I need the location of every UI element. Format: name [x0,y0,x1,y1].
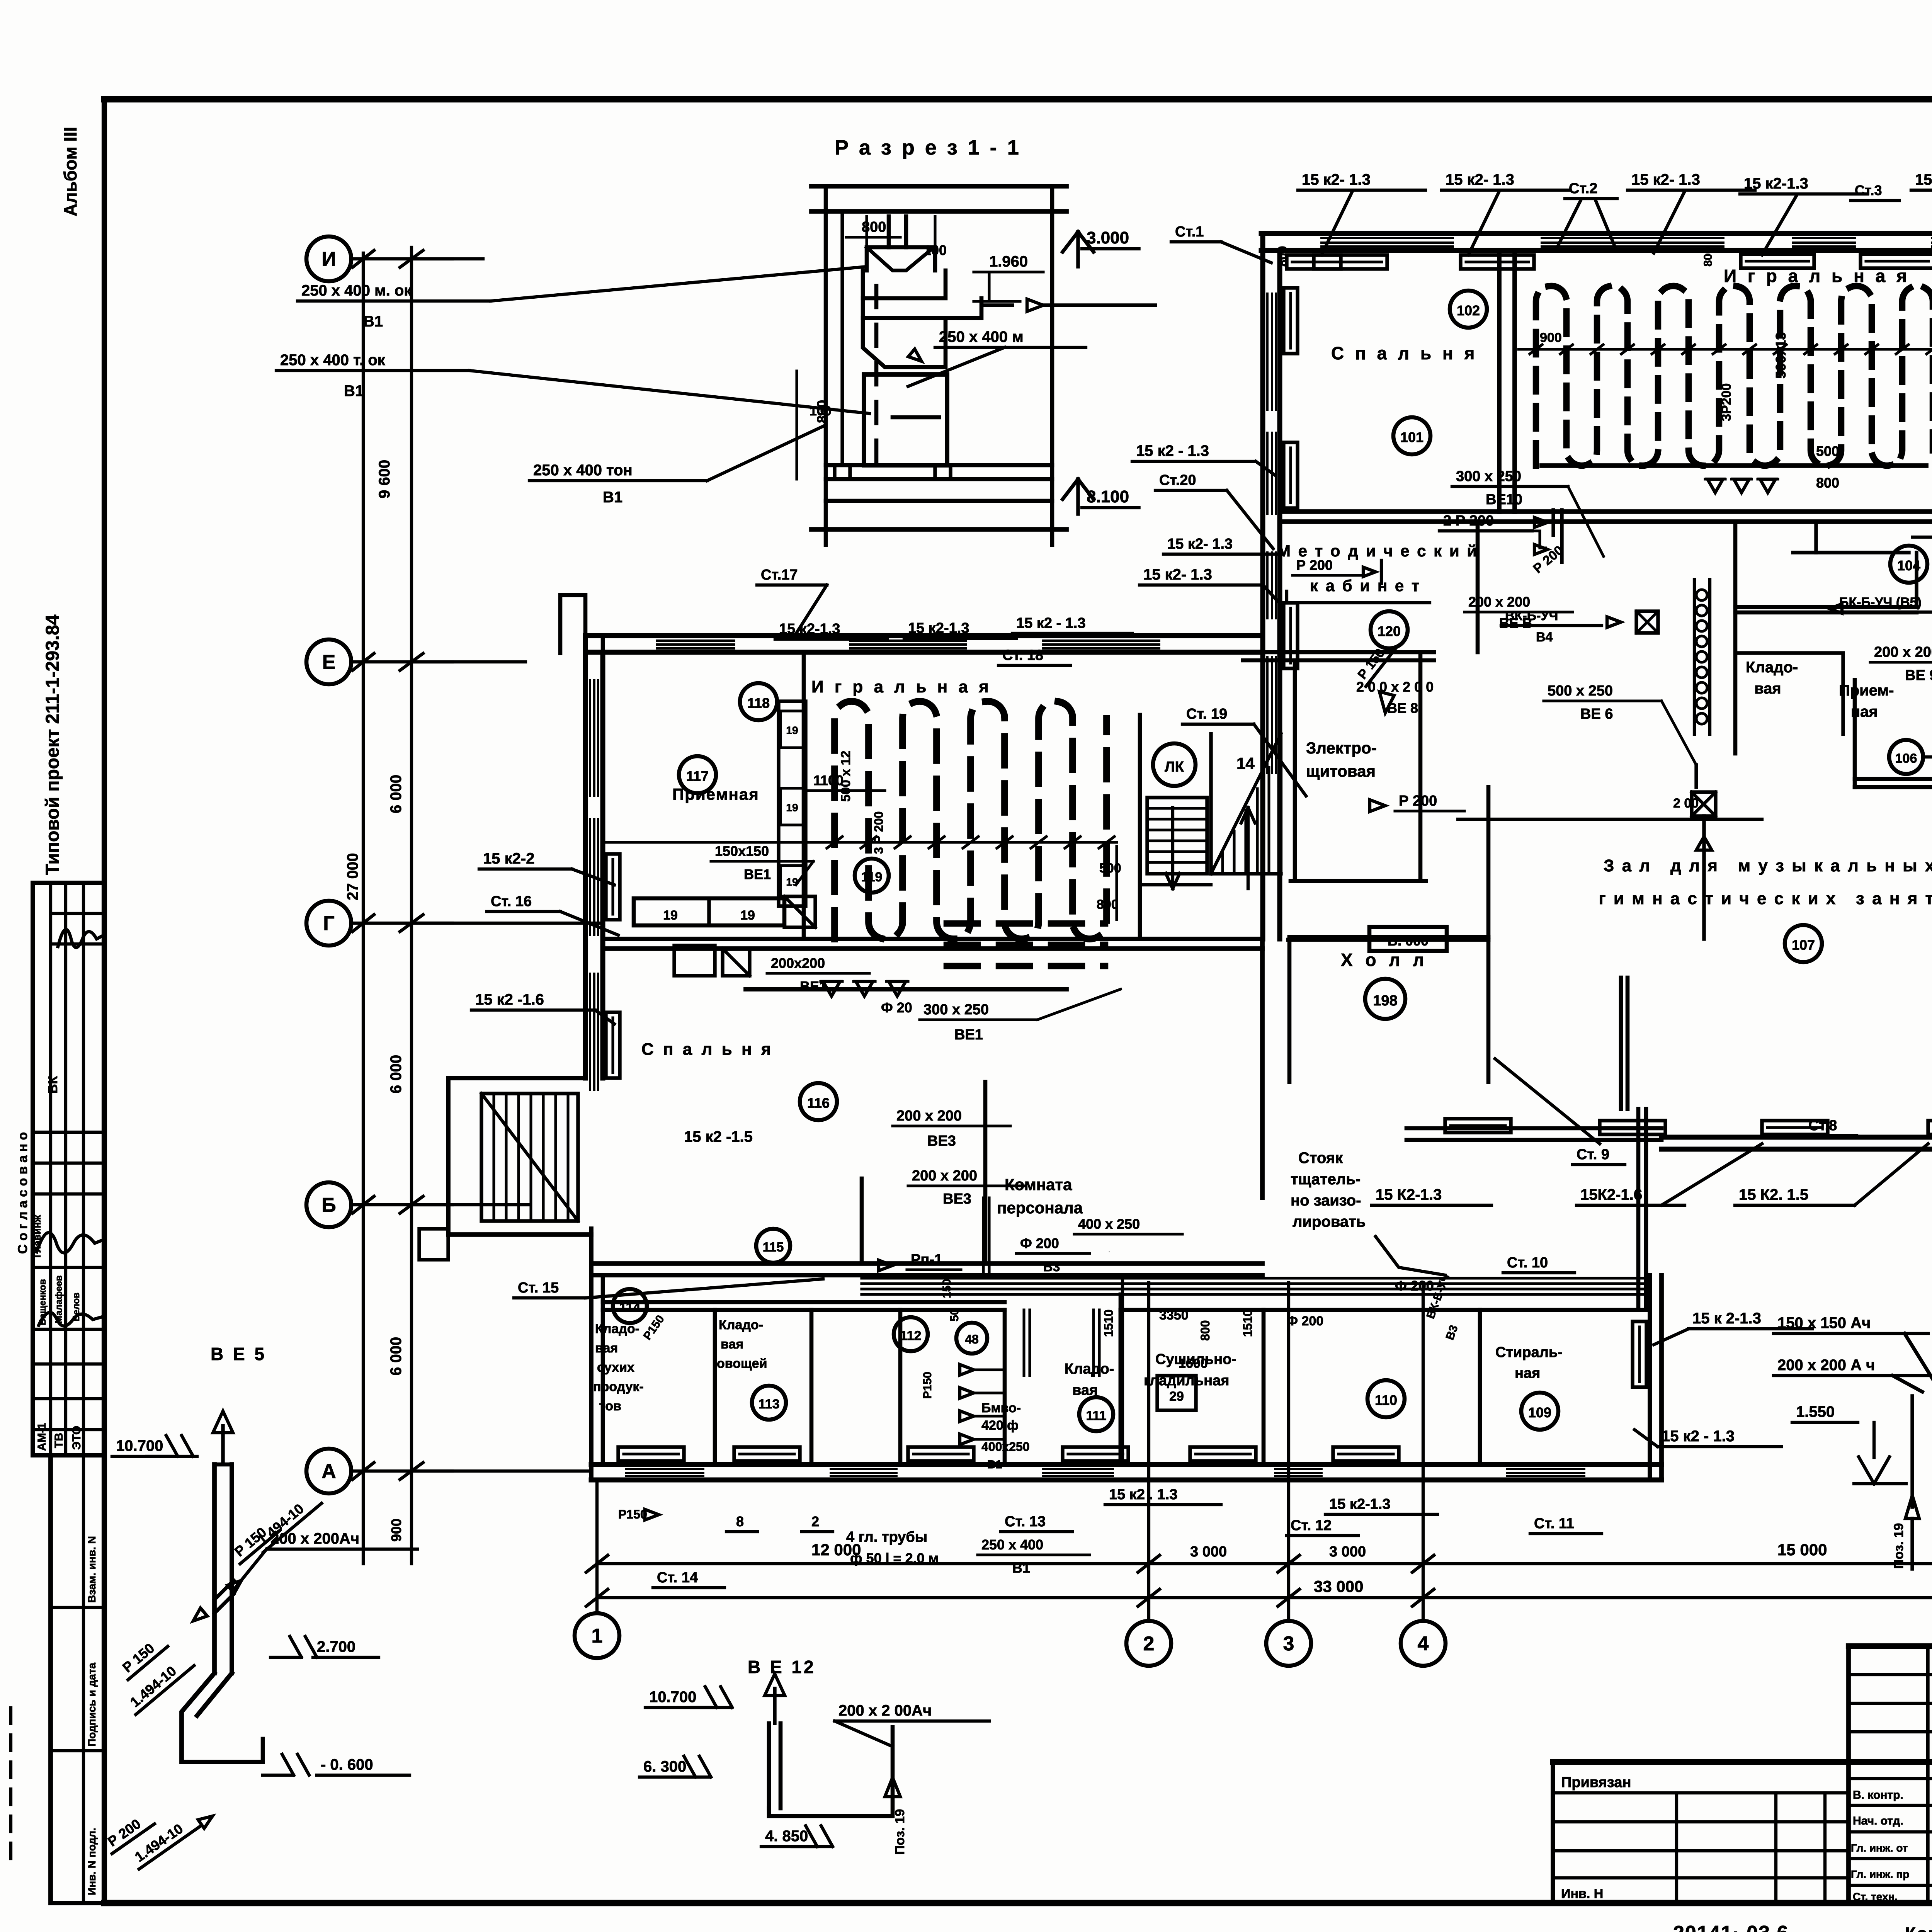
svg-text:106: 106 [1895,751,1917,766]
svg-text:Прием-: Прием- [1839,682,1894,699]
svg-text:1600: 1600 [1179,1356,1208,1371]
svg-text:6 000: 6 000 [388,1337,405,1376]
svg-text:АМ-1: АМ-1 [36,1423,48,1451]
svg-text:Ст. 14: Ст. 14 [657,1570,698,1586]
svg-text:Кладо-: Кладо- [719,1318,763,1332]
svg-text:19: 19 [663,908,678,923]
svg-text:Типовой проект 211-1-293.84: Типовой проект 211-1-293.84 [43,614,63,875]
svg-text:ная: ная [1515,1365,1540,1381]
svg-text:Поз. 19: Поз. 19 [893,1809,907,1855]
svg-text:ВЕ В: ВЕ В [1499,615,1532,631]
svg-text:19: 19 [740,908,755,923]
svg-text:15 к2 -1.6: 15 к2 -1.6 [475,991,544,1008]
svg-text:И: И [321,248,336,270]
svg-text:С п а л ь н я: С п а л ь н я [1331,343,1478,363]
svg-text:200 х 200: 200 х 200 [1874,644,1932,660]
svg-text:Ф 200: Ф 200 [1287,1314,1323,1328]
svg-text:БК-Б-УЧ (В5): БК-Б-УЧ (В5) [1839,595,1922,610]
svg-text:Ст. 19: Ст. 19 [1186,706,1227,722]
svg-text:Ф 200: Ф 200 [1395,1278,1434,1294]
svg-text:10.700: 10.700 [649,1689,696,1706]
svg-text:15 к2- 1.3: 15 к2- 1.3 [1915,171,1932,188]
svg-text:Копировал Дорофя: Копировал Дорофя [1905,1923,1932,1932]
svg-text:ВЕ10: ВЕ10 [1486,492,1522,508]
svg-text:420 ф: 420 ф [981,1418,1019,1433]
svg-text:15 к2 - 1.3: 15 к2 - 1.3 [1662,1428,1735,1445]
svg-text:33 000: 33 000 [1314,1577,1363,1595]
svg-text:109: 109 [1528,1405,1551,1420]
svg-text:ЭТО: ЭТО [70,1426,83,1450]
svg-text:198: 198 [1373,993,1397,1009]
svg-text:Ст. 16: Ст. 16 [491,893,532,910]
svg-text:Бмво-: Бмво- [981,1401,1021,1415]
svg-text:2 00: 2 00 [1673,796,1699,811]
svg-text:15 к2-1.3: 15 к2-1.3 [908,620,969,636]
svg-text:15 К2. 1.5: 15 К2. 1.5 [1739,1186,1808,1203]
svg-text:3: 3 [1283,1633,1294,1655]
svg-text:тов: тов [599,1399,621,1413]
svg-text:900: 900 [388,1519,404,1542]
svg-text:113: 113 [759,1397,780,1412]
svg-text:15 к2- 1.3: 15 к2- 1.3 [1446,171,1514,188]
svg-text:2 0 0 х 2 0 0: 2 0 0 х 2 0 0 [1356,679,1434,695]
svg-text:114: 114 [619,1300,641,1315]
svg-text:Гл. инж. от: Гл. инж. от [1851,1842,1908,1854]
svg-text:ВЕ3: ВЕ3 [927,1133,956,1149]
svg-text:вая: вая [595,1341,618,1355]
svg-text:ВЕ 9: ВЕ 9 [1905,667,1932,684]
svg-text:А: А [321,1460,336,1483]
svg-text:900: 900 [1540,330,1562,345]
svg-text:Комната: Комната [1005,1175,1072,1194]
svg-text:ная: ная [1851,703,1878,720]
svg-text:ВЕ1: ВЕ1 [954,1027,983,1043]
svg-text:300 х 250: 300 х 250 [923,1002,989,1018]
svg-text:500: 500 [1816,443,1839,459]
svg-text:15 к2 -1.5: 15 к2 -1.5 [684,1128,753,1145]
svg-text:В1: В1 [363,313,383,330]
svg-text:15 к2-1.3: 15 к2-1.3 [779,621,840,637]
svg-text:Ст.2: Ст.2 [1569,180,1597,197]
svg-text:Стираль-: Стираль- [1495,1344,1563,1361]
svg-text:800: 800 [1702,247,1714,267]
svg-text:Ст. 10: Ст. 10 [1507,1255,1548,1271]
svg-text:Белов: Белов [71,1293,82,1321]
svg-text:Подпись и дата: Подпись и дата [86,1663,98,1747]
svg-text:1510: 1510 [1241,1310,1255,1337]
svg-text:200 х 2 00Ач: 200 х 2 00Ач [838,1702,932,1719]
svg-text:ЛК: ЛК [1165,759,1184,775]
svg-text:Р150: Р150 [921,1372,934,1399]
svg-text:Е: Е [322,651,336,673]
svg-text:14: 14 [1236,754,1255,772]
svg-text:но заизо-: но заизо- [1291,1192,1361,1209]
svg-text:15 К2-1.3: 15 К2-1.3 [1376,1186,1442,1203]
svg-text:С п а л ь н я: С п а л ь н я [641,1040,773,1059]
svg-text:Ст.8: Ст.8 [1808,1117,1837,1134]
svg-text:250 х 400 тон: 250 х 400 тон [533,462,633,479]
svg-text:4 гл. трубы: 4 гл. трубы [846,1529,927,1545]
svg-text:Б: Б [321,1194,336,1216]
svg-text:400х250: 400х250 [981,1440,1030,1454]
svg-text:101: 101 [1400,429,1423,445]
svg-text:лировать: лировать [1293,1213,1366,1230]
svg-text:Нач. отд.: Нач. отд. [1853,1815,1903,1827]
svg-text:ВК: ВК [46,1076,60,1094]
svg-text:4: 4 [1418,1633,1429,1655]
svg-text:тщатель-: тщатель- [1291,1171,1361,1188]
svg-text:15 к2- 1.3: 15 к2- 1.3 [1631,171,1700,188]
svg-text:8.100: 8.100 [1087,487,1129,506]
svg-text:Г: Г [323,912,334,935]
svg-text:15 к2 - 1.3: 15 к2 - 1.3 [1136,442,1209,459]
svg-text:Ст.3: Ст.3 [1855,182,1882,198]
svg-text:6 000: 6 000 [388,1055,405,1094]
svg-text:15 к2-1.3: 15 к2-1.3 [1744,175,1808,192]
svg-text:100: 100 [923,242,947,258]
svg-text:щитовая: щитовая [1306,762,1376,780]
svg-text:вая: вая [1754,680,1781,697]
svg-text:Малафеев: Малафеев [54,1276,64,1323]
svg-text:1: 1 [592,1625,603,1647]
svg-text:200 х 200 А ч: 200 х 200 А ч [1777,1357,1875,1374]
svg-text:15 к2 . 1.3: 15 к2 . 1.3 [1109,1486,1177,1503]
svg-text:ТВ: ТВ [53,1433,65,1448]
svg-text:118: 118 [747,695,770,711]
svg-text:8: 8 [736,1514,744,1529]
svg-text:3 000: 3 000 [1329,1544,1366,1560]
svg-text:2.700: 2.700 [317,1638,355,1655]
svg-text:116: 116 [807,1095,830,1111]
svg-text:107: 107 [1792,937,1815,953]
svg-text:800: 800 [1816,475,1839,491]
svg-text:15 к2-1.3: 15 к2-1.3 [1329,1496,1390,1512]
svg-text:10.700: 10.700 [116,1437,163,1454]
svg-text:Р150: Р150 [618,1507,647,1521]
svg-text:В. контр.: В. контр. [1853,1789,1903,1801]
svg-text:15К2-1.6: 15К2-1.6 [1580,1186,1642,1203]
svg-text:800: 800 [1198,1320,1212,1341]
svg-text:Бащенков: Бащенков [37,1279,48,1325]
svg-text:Ф 20: Ф 20 [881,1000,912,1015]
svg-text:Рп-1: Рп-1 [911,1252,942,1268]
svg-text:15 к2- 1.3: 15 к2- 1.3 [1167,536,1233,552]
svg-text:15 000: 15 000 [1777,1541,1827,1559]
svg-text:15 к 2-1.3: 15 к 2-1.3 [1692,1310,1761,1327]
svg-text:Ст. 11: Ст. 11 [1534,1515,1574,1532]
svg-text:150х150: 150х150 [715,843,769,859]
svg-text:В3: В3 [1043,1260,1060,1274]
svg-text:Ст. 15: Ст. 15 [518,1280,559,1296]
svg-text:З а л д л я м у з ы к а л: З а л д л я м у з ы к а л ь н ы х и [1604,856,1932,875]
svg-text:112: 112 [900,1328,922,1343]
svg-text:- 0. 600: - 0. 600 [321,1756,373,1773]
svg-text:Ст. 13: Ст. 13 [1005,1514,1046,1530]
svg-text:19: 19 [786,802,798,814]
svg-text:В4: В4 [1536,630,1553,645]
svg-text:продук-: продук- [593,1379,644,1394]
svg-text:4. 850: 4. 850 [765,1828,808,1845]
svg-text:400 х 250: 400 х 250 [1078,1216,1140,1232]
svg-text:117: 117 [686,768,709,784]
svg-text:В1: В1 [603,489,622,506]
svg-text:Злектро-: Злектро- [1306,739,1377,757]
svg-text:3 Р 200: 3 Р 200 [872,811,886,854]
svg-text:ф 50 l = 2.0 м: ф 50 l = 2.0 м [850,1550,939,1566]
svg-text:В Е 12: В Е 12 [748,1657,816,1677]
svg-text:15 к2- 1.3: 15 к2- 1.3 [1302,171,1371,188]
svg-text:48: 48 [965,1332,979,1346]
svg-text:6. 300: 6. 300 [643,1758,686,1775]
svg-text:250 х 400 м. ок: 250 х 400 м. ок [301,282,412,299]
svg-text:Р а з р е з 1 - 1: Р а з р е з 1 - 1 [835,136,1021,159]
svg-text:20141· 03 6: 20141· 03 6 [1673,1922,1789,1932]
svg-text:3.000: 3.000 [1087,228,1129,247]
svg-text:персонала: персонала [997,1199,1083,1217]
svg-text:200 х 200Ач: 200 х 200Ач [270,1530,359,1547]
svg-text:250 х 400: 250 х 400 [981,1537,1043,1553]
svg-text:Инв. N подл.: Инв. N подл. [86,1828,98,1895]
svg-text:6 000: 6 000 [388,775,405,813]
svg-text:15 к2-2: 15 к2-2 [483,850,534,867]
svg-text:15 к2 - 1.3: 15 к2 - 1.3 [1016,615,1086,631]
svg-text:110: 110 [1375,1392,1397,1408]
svg-text:1510: 1510 [1102,1310,1116,1337]
svg-text:200х200: 200х200 [771,955,825,971]
svg-text:2: 2 [811,1514,819,1529]
svg-text:Инв. Н: Инв. Н [1561,1886,1603,1901]
svg-text:500 х 250: 500 х 250 [1548,683,1613,699]
svg-text:800: 800 [1276,246,1289,267]
svg-text:9 600: 9 600 [376,460,393,498]
svg-text:250 х 400 т. ок: 250 х 400 т. ок [280,352,386,369]
svg-text:М е т о д и ч е с к и й: М е т о д и ч е с к и й [1277,542,1478,560]
svg-text:В Е 5: В Е 5 [211,1344,267,1364]
svg-text:С о г л а с о в а н о: С о г л а с о в а н о [15,1132,30,1254]
svg-text:Привязан: Привязан [1561,1774,1631,1791]
svg-text:Взам. инв. N: Взам. инв. N [86,1536,98,1603]
svg-text:Поз. 19: Поз. 19 [1891,1523,1906,1569]
svg-text:150: 150 [940,1279,953,1298]
svg-text:Ст.17: Ст.17 [761,567,798,583]
svg-text:15 к2- 1.3: 15 к2- 1.3 [1143,566,1212,583]
svg-text:Ст. 9: Ст. 9 [1577,1146,1609,1163]
svg-text:3350: 3350 [1159,1308,1189,1323]
svg-text:150 х 150 Ач: 150 х 150 Ач [1777,1315,1871,1332]
svg-text:111: 111 [1086,1408,1107,1423]
svg-text:И г р а л ь н а я: И г р а л ь н а я [811,677,992,696]
svg-text:Ст. 18: Ст. 18 [1002,647,1043,663]
svg-text:Х о л л: Х о л л [1341,950,1428,970]
svg-text:200 х 200: 200 х 200 [1468,594,1530,610]
svg-text:27 000: 27 000 [344,853,361,900]
svg-text:2: 2 [1143,1633,1155,1655]
svg-text:ВЕ3: ВЕ3 [943,1191,971,1207]
svg-text:Кладо-: Кладо- [1746,659,1798,676]
svg-text:1.960: 1.960 [989,253,1028,270]
svg-text:Гл. инж. пр: Гл. инж. пр [1851,1868,1909,1880]
svg-text:Ст.1: Ст.1 [1175,224,1204,240]
svg-text:Ст. техн.: Ст. техн. [1853,1891,1898,1903]
svg-text:Ст.20: Ст.20 [1159,472,1196,488]
svg-text:200 х 200: 200 х 200 [896,1108,962,1124]
svg-text:Кладо-: Кладо- [1065,1361,1114,1377]
svg-text:120: 120 [1378,623,1401,639]
svg-text:250 х 400 м: 250 х 400 м [939,328,1024,345]
svg-text:к а б и н е т: к а б и н е т [1310,577,1421,595]
svg-text:1.550: 1.550 [1796,1403,1835,1420]
svg-text:Стояк: Стояк [1298,1150,1343,1167]
svg-text:Ф 200: Ф 200 [1020,1235,1059,1251]
svg-text:Р 200: Р 200 [1399,793,1437,809]
svg-text:29: 29 [1169,1389,1184,1404]
svg-text:300 х 250: 300 х 250 [1456,468,1521,485]
svg-text:200 х 200: 200 х 200 [912,1168,977,1184]
svg-text:вая: вая [721,1337,743,1352]
svg-text:Альбом III: Альбом III [60,127,80,216]
svg-text:2 Р 200: 2 Р 200 [1443,513,1494,529]
svg-text:500 х 12: 500 х 12 [838,751,853,802]
svg-text:ВЕ 6: ВЕ 6 [1580,706,1613,722]
svg-text:115: 115 [763,1240,784,1255]
svg-text:овощей: овощей [717,1356,767,1371]
svg-text:г и м н а с т и ч е с к и х: г и м н а с т и ч е с к и х з а н я т и … [1599,889,1932,908]
svg-text:3 000: 3 000 [1190,1544,1227,1560]
svg-text:Ст. 12: Ст. 12 [1291,1517,1332,1534]
svg-text:В. 000: В. 000 [1388,933,1429,949]
svg-text:800: 800 [1097,897,1119,912]
svg-text:ВЕ1: ВЕ1 [744,866,771,882]
svg-text:сухих: сухих [597,1360,634,1375]
svg-text:В1: В1 [987,1458,1002,1471]
svg-text:В1: В1 [344,383,364,400]
svg-text:19: 19 [786,724,798,736]
svg-text:50: 50 [948,1309,961,1321]
svg-text:102: 102 [1457,303,1480,318]
svg-text:В1: В1 [1012,1560,1030,1576]
